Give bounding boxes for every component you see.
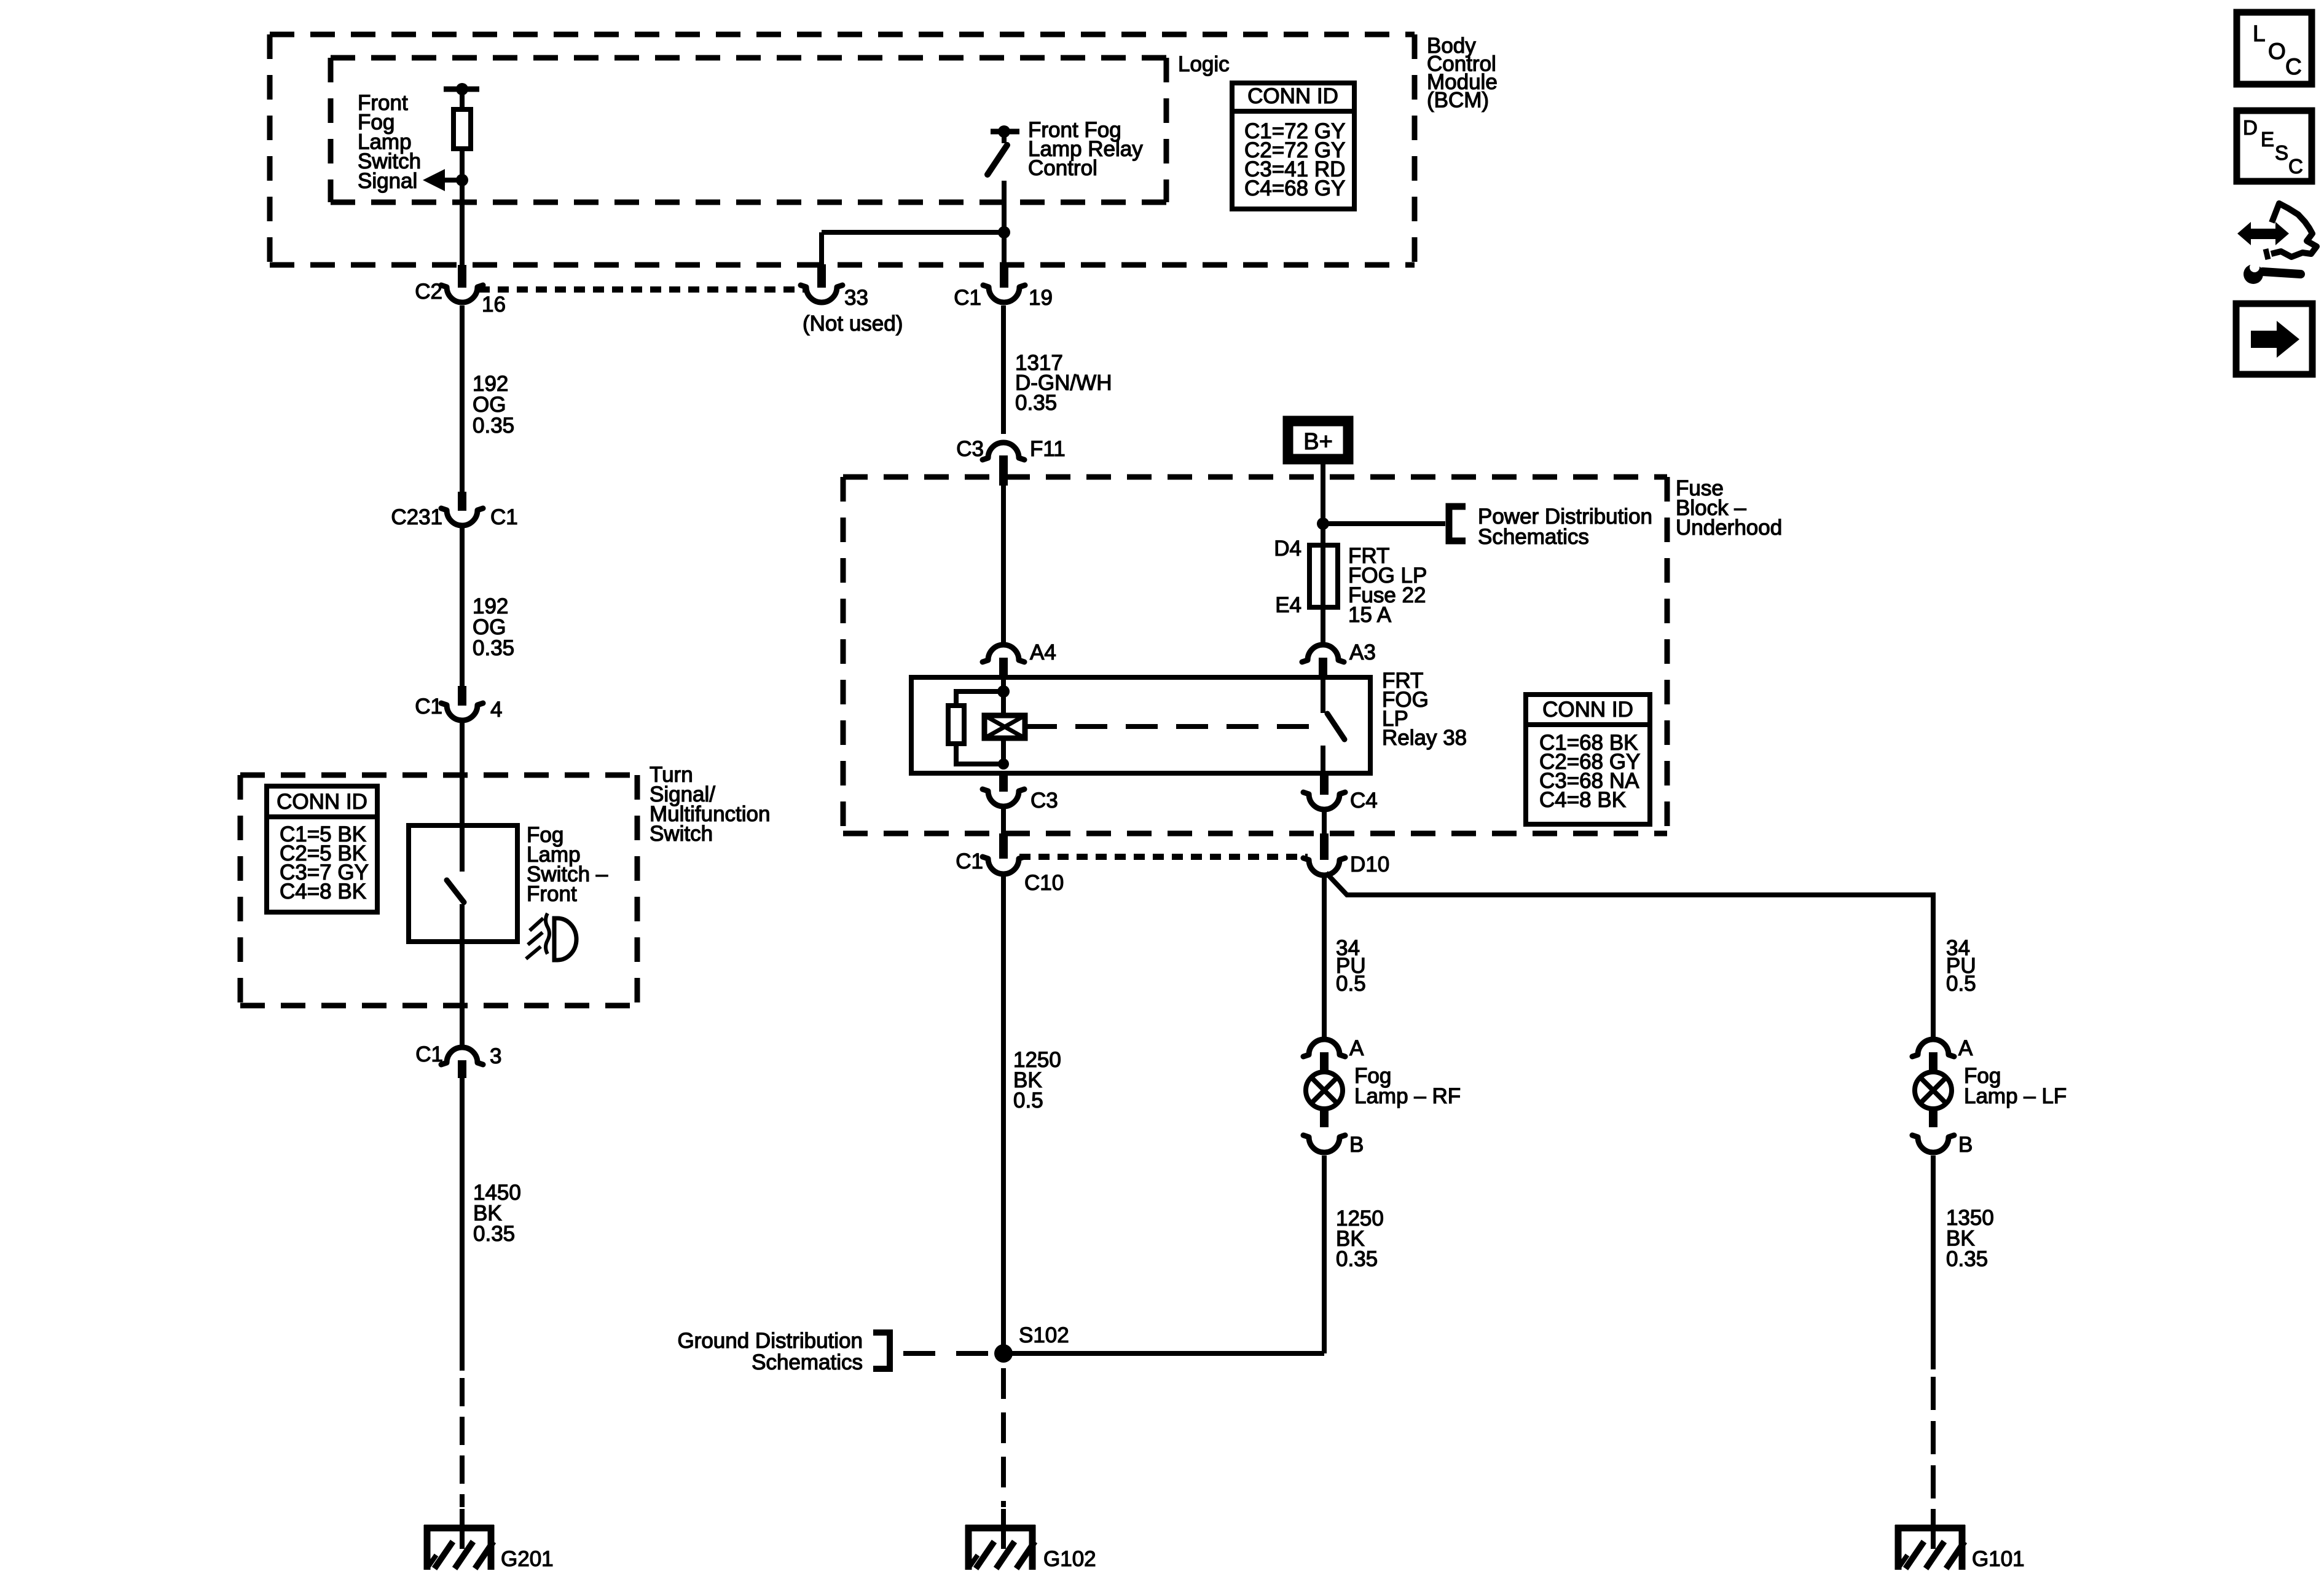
svg-text:C4=68 GY: C4=68 GY — [1244, 176, 1345, 200]
svg-text:C3: C3 — [956, 437, 984, 461]
svg-text:C4=8 BK: C4=8 BK — [1539, 788, 1626, 812]
svg-text:C4=8 BK: C4=8 BK — [280, 880, 366, 904]
svg-text:15 A: 15 A — [1348, 603, 1392, 627]
svg-text:Lamp – LF: Lamp – LF — [1964, 1084, 2067, 1108]
svg-text:C10: C10 — [1024, 871, 1064, 895]
svg-text:Front: Front — [527, 882, 577, 906]
svg-text:C1: C1 — [415, 1042, 443, 1066]
svg-text:Logic: Logic — [1178, 52, 1230, 76]
svg-text:0.5: 0.5 — [1946, 972, 1976, 996]
svg-text:Schematics: Schematics — [752, 1350, 863, 1374]
svg-text:C: C — [2285, 54, 2302, 79]
svg-text:CONN ID: CONN ID — [1247, 84, 1338, 108]
svg-text:0.35: 0.35 — [473, 1222, 515, 1246]
svg-text:0.5: 0.5 — [1013, 1089, 1043, 1112]
svg-text:A: A — [1349, 1036, 1364, 1060]
svg-text:19: 19 — [1029, 286, 1053, 310]
svg-text:F11: F11 — [1030, 437, 1066, 461]
svg-text:C3: C3 — [1030, 789, 1058, 813]
svg-text:C1: C1 — [415, 695, 442, 719]
svg-text:S: S — [2275, 141, 2288, 164]
svg-text:CONN ID: CONN ID — [1542, 698, 1633, 722]
svg-text:0.35: 0.35 — [1946, 1247, 1988, 1271]
svg-text:C1: C1 — [956, 849, 983, 873]
svg-text:E: E — [2261, 128, 2274, 151]
svg-text:0.35: 0.35 — [1336, 1247, 1378, 1271]
svg-text:Switch: Switch — [650, 822, 713, 846]
svg-text:G201: G201 — [501, 1547, 554, 1571]
svg-text:0.35: 0.35 — [473, 414, 514, 438]
svg-text:C4: C4 — [1350, 789, 1378, 813]
svg-text:L: L — [2253, 21, 2266, 46]
svg-text:CONN ID: CONN ID — [277, 790, 367, 814]
svg-text:0.35: 0.35 — [1015, 391, 1057, 415]
svg-text:C231: C231 — [391, 505, 442, 529]
svg-text:O: O — [2268, 39, 2286, 64]
svg-text:4: 4 — [490, 698, 502, 722]
svg-text:0.35: 0.35 — [473, 636, 514, 660]
svg-text:Control: Control — [1028, 156, 1097, 180]
svg-text:D4: D4 — [1274, 537, 1301, 561]
svg-text:3: 3 — [490, 1044, 501, 1068]
svg-text:C2: C2 — [415, 280, 442, 304]
svg-text:C1: C1 — [490, 505, 518, 529]
svg-text:D10: D10 — [1350, 853, 1389, 876]
svg-text:(BCM): (BCM) — [1427, 89, 1489, 112]
svg-text:Lamp – RF: Lamp – RF — [1354, 1084, 1461, 1108]
svg-text:B+: B+ — [1303, 429, 1333, 455]
svg-text:Underhood: Underhood — [1676, 516, 1782, 540]
svg-text:D: D — [2243, 116, 2258, 139]
svg-text:A3: A3 — [1349, 640, 1376, 664]
svg-text:33: 33 — [844, 286, 868, 310]
svg-text:B: B — [1349, 1133, 1364, 1157]
svg-text:A: A — [1958, 1036, 1973, 1060]
svg-text:B: B — [1958, 1133, 1973, 1157]
svg-text:E4: E4 — [1275, 593, 1301, 617]
svg-text:Ground Distribution: Ground Distribution — [677, 1329, 863, 1353]
svg-text:S102: S102 — [1019, 1323, 1069, 1347]
svg-text:0.5: 0.5 — [1336, 972, 1366, 996]
svg-text:G101: G101 — [1972, 1547, 2025, 1571]
svg-text:A4: A4 — [1030, 640, 1056, 664]
svg-text:G102: G102 — [1043, 1547, 1096, 1571]
svg-text:C: C — [2288, 155, 2303, 178]
svg-text:16: 16 — [482, 293, 506, 317]
svg-text:Schematics: Schematics — [1478, 525, 1589, 549]
svg-text:(Not used): (Not used) — [803, 312, 903, 336]
svg-text:Relay 38: Relay 38 — [1382, 726, 1467, 750]
svg-text:Signal: Signal — [358, 169, 417, 193]
svg-text:C1: C1 — [954, 286, 981, 310]
